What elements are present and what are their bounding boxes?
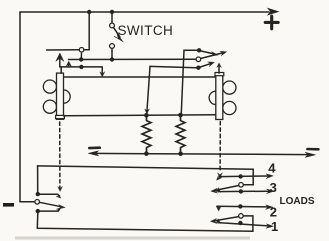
contact small arrow stub [68,65,70,67]
node R1 bottom [144,151,149,156]
contact K2 row B pivot [196,57,201,62]
switch S1 lower terminal [110,44,115,49]
relay K1 core [57,73,64,119]
contact RU blade [215,186,239,191]
wire switch drop [111,12,113,23]
node top bus junction [87,10,91,14]
wire K2 core riser [218,66,220,73]
contact RU pivot [239,183,244,188]
artifact bottom smudge [15,237,250,240]
link K1 armature dashed [59,122,61,188]
relay K2 core [216,73,223,119]
node resistor R1 top [144,113,149,118]
contact RL pivot [239,214,244,219]
wire row C drop [147,66,150,110]
contact K1-a point [79,48,84,53]
wire coil top feed K2 [64,76,216,78]
relay K1 coil winding [43,80,56,93]
contact L lower fixed [36,209,40,213]
contact K2 row C arm [150,66,196,67]
wire load 3 [218,190,269,192]
relay K2 coil winding [223,81,236,94]
wire contact to top bus [84,12,89,50]
wire top supply bus [20,11,269,13]
switch S1 blade [114,28,120,38]
artifact left edge mark [3,203,14,207]
node R2 bottom [178,151,183,156]
wire drop to coil feed [101,67,103,73]
node switch top junction [110,10,114,14]
wire ground return bus [93,153,308,154]
link K2 armature dashed [219,122,221,173]
contact R2 arm [218,206,220,208]
contact L pivot [35,200,40,205]
node bus junction switch [110,57,114,61]
svg-text:1: 1 [271,219,278,234]
wire left vertical feed [20,12,35,202]
switch S1 upper terminal [110,23,115,28]
plus symbol [265,16,278,29]
wire load box top [38,166,254,185]
wire load 4 [220,175,269,178]
wire left riser to NO contact [37,166,39,192]
node bus junction a [79,57,83,61]
contact R3 arm [217,191,219,192]
contact R1 arm [217,221,219,224]
wire K1 core top riser [60,67,62,73]
wire mid bus between coils [64,115,216,116]
wire armature run [60,66,102,68]
contact R4 arm [219,177,222,179]
node resistor R2 top [178,113,183,118]
svg-text:4: 4 [268,160,276,175]
wire relay bus y59 [69,58,197,60]
ground right symbol [307,148,318,151]
resistor R1 [142,115,151,153]
battery plus terminal arrow [268,8,278,14]
contact K1-a fixed arm [47,49,80,51]
resistor R2 [176,115,185,154]
wire load box bottom [37,213,253,231]
contact RL blade [214,217,239,221]
contact L blade [40,202,62,206]
wire switch to bus [111,48,113,59]
svg-text:LOADS: LOADS [280,196,315,207]
wire stub toward contact point [80,53,82,59]
ground left symbol [89,146,100,149]
node armature junction [79,65,83,69]
svg-text:3: 3 [270,180,277,195]
contact L upper fixed [36,192,40,196]
svg-text:SWITCH: SWITCH [118,23,174,38]
contact K2 row A arm [181,50,197,115]
wire load 2 [217,205,268,208]
contact K1-b armature arrow [59,58,61,67]
wire load 1 [218,223,269,226]
svg-text:2: 2 [270,204,277,219]
